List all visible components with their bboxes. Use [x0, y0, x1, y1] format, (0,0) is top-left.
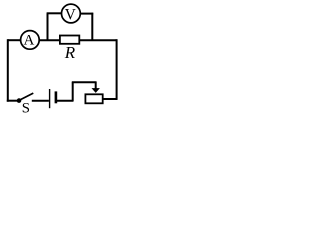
- wire: voltmeter top-left horizontal: [47, 12, 62, 14]
- rheostat RP wiper arrow shaft: [95, 81, 97, 89]
- wire: voltmeter left riser at node x=47.5: [47, 13, 49, 41]
- rheostat RP wiper arrowhead: [92, 88, 100, 93]
- switch S blade (open): [19, 93, 33, 100]
- wire: resistor to top-right corner: [79, 39, 116, 41]
- rheostat RP box: [85, 94, 102, 103]
- svg-text:V: V: [65, 7, 76, 24]
- wire: left vertical side: [7, 39, 9, 101]
- wire: ammeter to resistor R: [39, 39, 60, 41]
- wire: bottom-right corner to rheostat right terminal: [103, 98, 118, 100]
- battery B1 long thin plate (positive): [49, 89, 51, 108]
- wire: horizontal from riser to wiper: [72, 81, 96, 83]
- wire: bottom-left corner to switch dot: [7, 100, 18, 102]
- resistor R box: [60, 36, 79, 44]
- wire: switch to battery: [32, 100, 49, 102]
- svg-text:R: R: [64, 43, 76, 62]
- svg-text:A: A: [23, 33, 34, 49]
- battery B1 short thick plate (negative): [55, 91, 58, 103]
- wire: top-left horizontal from corner to ammeter: [8, 39, 21, 41]
- switch S pivot dot: [17, 98, 22, 103]
- wire: voltmeter top-right horizontal: [80, 13, 93, 15]
- svg-text:S: S: [22, 100, 30, 116]
- ammeter A1 circle: [21, 31, 40, 50]
- wire: riser from bottom wire up to wiper wire: [72, 82, 74, 101]
- wire: right vertical side: [116, 39, 118, 99]
- voltmeter V1 circle: [62, 4, 81, 23]
- wire: voltmeter right riser down to main wire: [91, 13, 93, 41]
- wire: battery to riser: [57, 100, 74, 102]
